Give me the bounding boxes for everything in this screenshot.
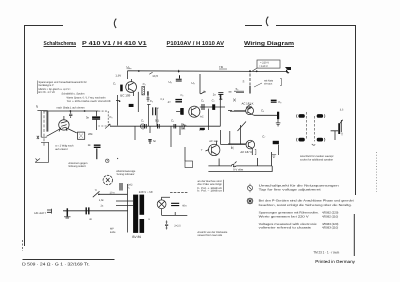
cap on input line — [86, 207, 89, 214]
title — [44, 40, 295, 47]
svg-text:Z≈: Z≈ — [168, 100, 172, 104]
svg-text:C₂: C₂ — [143, 82, 146, 86]
svg-text:5n: 5n — [153, 139, 157, 143]
svg-text:P 410 V1 / H 410 V1: P 410 V1 / H 410 V1 — [82, 40, 147, 47]
svg-text:AC 187 K: AC 187 K — [242, 102, 254, 106]
svg-text:BC 109: BC 109 — [120, 94, 130, 98]
svg-text:nach Skala 1 auf oberen: nach Skala 1 auf oberen — [57, 106, 86, 109]
Q3 base wire — [228, 104, 252, 111]
volume pot black box KT — [129, 104, 134, 107]
svg-text:4/5083 (110): 4/5083 (110) — [322, 225, 338, 229]
cap U2 — [176, 75, 182, 81]
ferrite antenna rod — [46, 111, 48, 132]
svg-text:C₅: C₅ — [201, 99, 204, 103]
verticals poti — [230, 122, 246, 145]
tube V1 triode — [47, 116, 77, 136]
svg-text:60n: 60n — [182, 205, 187, 208]
svg-text:220 V ~ 50: 220 V ~ 50 — [139, 190, 153, 194]
wire ground bus — [208, 166, 272, 172]
node junction mid — [138, 70, 140, 72]
svg-text:Tr: Tr — [95, 189, 97, 192]
legend item 1 — [247, 184, 252, 192]
wire emitter bus double — [208, 152, 271, 166]
resistor hatched R3 — [142, 86, 145, 95]
legend item 4 — [259, 222, 339, 230]
legend item 3 — [259, 211, 339, 219]
svg-text:≈ 110 V: ≈ 110 V — [259, 65, 268, 68]
svg-text:BV Ch. 2 P 20: BV Ch. 2 P 20 — [39, 91, 56, 94]
svg-text:C₆: C₆ — [181, 94, 184, 97]
svg-text:b. Pol. − 1848 un: b. Pol. − 1848 un — [198, 190, 223, 193]
svg-text:viewed from rear side: viewed from rear side — [197, 234, 222, 237]
svg-text:BV 89: BV 89 — [132, 235, 141, 239]
svg-text:C₅: C₅ — [150, 99, 153, 103]
coupling cap mid — [148, 139, 152, 144]
svg-text:S₂: S₂ — [236, 87, 239, 91]
right section solder lug pairs — [298, 114, 323, 141]
coupling cap striped — [147, 105, 157, 127]
plug symbol — [64, 208, 71, 218]
svg-text:Gerätetype P: Gerätetype P — [39, 84, 55, 87]
svg-text:UK 4477: UK 4477 — [34, 211, 46, 215]
svg-text:3,5: 3,5 — [340, 108, 344, 111]
svg-text:C₆: C₆ — [261, 109, 264, 113]
svg-text:TM 23 1 · 1 · r swm: TM 23 1 · 1 · r swm — [313, 251, 339, 255]
svg-text:10 n: 10 n — [110, 191, 116, 194]
svg-text:AC 187 K: AC 187 K — [240, 150, 252, 154]
svg-text:27k: 27k — [199, 128, 204, 132]
wire Q4 base — [228, 143, 246, 145]
node squiggle — [231, 162, 237, 167]
bus right connector — [182, 123, 185, 129]
svg-text:C₇: C₇ — [262, 135, 265, 139]
svg-text:Tap for line voltage adjustmen: Tap for line voltage adjustment — [259, 187, 321, 191]
border frame — [23, 26, 356, 260]
svg-text:Tol. ± 20% Reihe nach Vorschri: Tol. ± 20% Reihe nach Vorschrift — [67, 100, 111, 103]
switch dashed at S — [249, 74, 251, 93]
svg-text:Schaltbild u. Spulen: Schaltbild u. Spulen — [62, 93, 85, 96]
cap C7 black — [212, 104, 215, 110]
antenna coil — [40, 111, 42, 138]
svg-text:C₁: C₁ — [113, 82, 116, 86]
svg-text:4/5082 (110): 4/5082 (110) — [322, 215, 338, 219]
svg-text:P1010AV / H 1010 AV: P1010AV / H 1010 AV — [167, 40, 225, 47]
wire Q2 output — [200, 106, 225, 108]
emitter ticks — [219, 158, 257, 166]
capacitor C osc column — [92, 111, 100, 130]
ground below output — [276, 119, 281, 126]
text block tuning lamp — [116, 170, 136, 176]
connector right end — [285, 67, 291, 70]
svg-text:Werte gemessen bei 220 V: Werte gemessen bei 220 V — [259, 215, 309, 219]
node junction S — [249, 70, 251, 72]
svg-text:socket for additional speaker: socket for additional speaker — [300, 159, 333, 162]
transistor Q4 AC187K — [246, 140, 255, 155]
input connector — [47, 209, 51, 214]
svg-text:0,1: 0,1 — [155, 119, 159, 123]
svg-text:26k: 26k — [88, 132, 93, 136]
wire antenna input — [63, 210, 128, 212]
svg-text:Erde: Erde — [110, 231, 116, 234]
transistor Q3 AC187K — [246, 107, 254, 116]
svg-text:Tuning indicator: Tuning indicator — [116, 173, 134, 176]
svg-text:die Pole wie folgt: die Pole wie folgt — [198, 183, 222, 186]
svg-text:C₃: C₃ — [141, 119, 144, 123]
black T bar with wire — [180, 108, 183, 115]
svg-text:AC: AC — [200, 116, 204, 119]
svg-text:C₇: C₇ — [212, 99, 215, 103]
dashed line above — [170, 192, 188, 194]
svg-text:D 509 · 24 Ω · G 1 · 32/169 Tr: D 509 · 24 Ω · G 1 · 32/169 Tr. — [22, 261, 90, 266]
svg-text:Wiring Diagram: Wiring Diagram — [244, 40, 294, 47]
earphone jack symbol — [331, 120, 343, 140]
svg-text:AC 125: AC 125 — [209, 140, 218, 143]
wire Q3 emitter — [254, 114, 279, 116]
bus left connector — [140, 123, 143, 129]
wire AF bus y126 — [110, 125, 221, 127]
svg-text:N: N — [156, 106, 158, 110]
transistor Q5 AC125 — [206, 130, 221, 156]
svg-text:9 V elim: 9 V elim — [233, 168, 244, 172]
svg-text:1,5k: 1,5k — [99, 199, 105, 202]
capacitor C8 black plates — [271, 100, 277, 102]
text block below jack — [300, 155, 334, 162]
transformer left vertical — [116, 184, 133, 233]
cap Z black plates — [175, 100, 182, 102]
svg-text:Printed in Germany: Printed in Germany — [315, 259, 356, 264]
output cap black T — [277, 112, 279, 120]
transistor T2 — [189, 106, 200, 117]
svg-text:1,5V: 1,5V — [115, 73, 121, 77]
svg-text:14,5: 14,5 — [152, 74, 158, 78]
svg-text:voltmeter referred to chassis: voltmeter referred to chassis — [259, 225, 312, 229]
svg-text:2+2,5: 2+2,5 — [174, 225, 181, 228]
text block: Schematic notes — [62, 93, 111, 103]
electrolytic black bar left of T2 — [181, 108, 184, 115]
svg-text:beachten, sonst erfolgt die Si: beachten, sonst erfolgt die Sicherung üb… — [259, 203, 352, 207]
cap labels on AF bus — [141, 119, 175, 123]
wire Q3 base — [230, 110, 246, 112]
svg-text:S: S — [243, 80, 245, 84]
svg-text:ein-aus: ein-aus — [264, 83, 273, 86]
wire vertical x220 — [209, 96, 221, 130]
resistor box 4,7k — [185, 161, 193, 168]
caps on AF bus — [145, 124, 176, 129]
black bar bottom — [200, 128, 205, 130]
ground marks — [272, 155, 277, 158]
wire top supply bus — [128, 70, 289, 73]
svg-text:U₁: U₁ — [127, 65, 130, 69]
resistor box R osc — [78, 132, 85, 139]
cap C5 — [202, 104, 204, 110]
trimmer dashed box — [98, 111, 108, 126]
transistor T1 BC109 — [126, 71, 137, 96]
power transformer black bars — [133, 195, 138, 233]
capacitor 1k with stem — [94, 145, 101, 147]
resistor box right — [273, 141, 279, 144]
antenna coil terminals bracket — [35, 142, 49, 162]
cap bar right — [147, 91, 148, 95]
svg-text:Schaltschema: Schaltschema — [44, 40, 77, 47]
wire lamp bottom — [162, 212, 188, 215]
svg-text:auf unterer: auf unterer — [55, 148, 68, 151]
ground dot mark — [106, 159, 109, 162]
annotation box 220V — [257, 60, 280, 68]
wire mains to transformer — [99, 193, 128, 195]
dial lamp L2 — [157, 197, 170, 215]
antenna top connect — [37, 105, 48, 139]
left upper text block: Spannungen gemessen — [39, 81, 87, 94]
switch contact lines — [229, 91, 245, 92]
svg-text:E₁: E₁ — [231, 146, 234, 150]
wire Q5 collector run — [221, 144, 246, 146]
verticals from AF bus — [135, 126, 180, 147]
cap near lamp — [120, 183, 122, 191]
svg-text:TB: TB — [219, 65, 223, 69]
text block right of lamp — [198, 180, 223, 193]
svg-text:0,1: 0,1 — [161, 98, 165, 101]
svg-text:R₅: R₅ — [203, 91, 206, 94]
wire T1 down — [116, 92, 138, 126]
svg-text:Störung isoliert: Störung isoliert — [68, 165, 86, 168]
electrolytic C black bar at T1 — [120, 85, 123, 92]
bottom mid text — [197, 231, 228, 237]
connector double arrow — [165, 220, 168, 229]
mains switch diagonal — [93, 191, 100, 197]
capacitor below grid wire — [69, 111, 72, 118]
dial lamp circle — [103, 175, 112, 184]
legend item 2 — [247, 198, 254, 205]
svg-text:3n: 3n — [86, 115, 90, 119]
label MP — [110, 228, 116, 235]
cap 60n — [171, 203, 179, 205]
svg-text:C₈: C₈ — [278, 100, 281, 104]
wire tube grid — [43, 110, 98, 112]
